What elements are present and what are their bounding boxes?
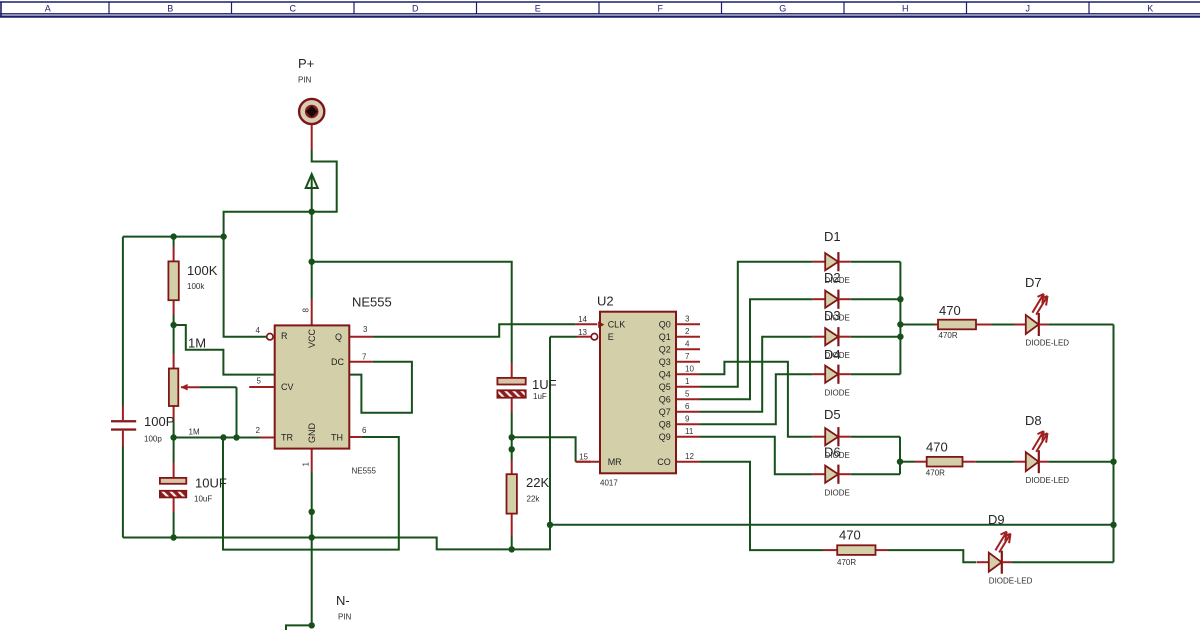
svg-text:P+: P+ [298, 56, 314, 71]
svg-text:DIODE: DIODE [825, 313, 850, 322]
svg-text:DIODE-LED: DIODE-LED [1026, 339, 1070, 348]
svg-text:C: C [290, 3, 297, 13]
svg-text:9: 9 [685, 415, 690, 424]
svg-text:1UF: 1UF [532, 377, 557, 392]
svg-text:VCC: VCC [307, 328, 317, 348]
svg-text:100P: 100P [144, 414, 174, 429]
svg-text:5: 5 [685, 390, 690, 399]
svg-text:1uF: 1uF [533, 392, 547, 401]
svg-text:CV: CV [281, 382, 294, 392]
svg-text:F: F [658, 3, 664, 13]
svg-text:Q6: Q6 [659, 394, 671, 404]
svg-text:470R: 470R [837, 558, 856, 567]
svg-text:3: 3 [363, 325, 368, 334]
svg-text:D: D [412, 3, 419, 13]
svg-text:6: 6 [362, 426, 367, 435]
svg-text:4017: 4017 [600, 479, 618, 488]
svg-text:NE555: NE555 [352, 295, 392, 310]
svg-text:E: E [608, 332, 614, 342]
svg-text:8: 8 [302, 308, 311, 313]
svg-text:Q4: Q4 [659, 369, 671, 379]
svg-text:Q2: Q2 [659, 344, 671, 354]
svg-text:6: 6 [685, 402, 690, 411]
svg-text:N-: N- [336, 593, 350, 608]
svg-text:470: 470 [926, 440, 948, 455]
svg-text:7: 7 [362, 353, 367, 362]
svg-text:1M: 1M [188, 336, 206, 351]
svg-text:2: 2 [256, 426, 261, 435]
svg-text:7: 7 [685, 352, 690, 361]
svg-text:H: H [902, 3, 909, 13]
svg-text:TR: TR [281, 433, 293, 443]
svg-text:D1: D1 [824, 229, 841, 244]
svg-text:470: 470 [939, 303, 961, 318]
svg-text:Q5: Q5 [659, 382, 671, 392]
svg-text:4: 4 [685, 340, 690, 349]
svg-text:DIODE: DIODE [825, 488, 850, 497]
svg-text:22k: 22k [527, 495, 541, 504]
svg-text:100p: 100p [144, 434, 162, 443]
svg-text:14: 14 [578, 315, 587, 324]
svg-text:DIODE: DIODE [825, 388, 850, 397]
svg-text:1: 1 [685, 377, 690, 386]
svg-text:J: J [1026, 3, 1031, 13]
svg-text:Q0: Q0 [659, 319, 671, 329]
svg-text:K: K [1147, 3, 1153, 13]
svg-text:G: G [779, 3, 786, 13]
svg-text:13: 13 [578, 328, 587, 337]
svg-text:470R: 470R [926, 469, 945, 478]
svg-text:U2: U2 [597, 294, 614, 309]
svg-text:PIN: PIN [338, 613, 352, 622]
svg-text:15: 15 [579, 453, 588, 462]
svg-text:D7: D7 [1025, 275, 1042, 290]
svg-text:5: 5 [257, 376, 262, 385]
svg-text:100K: 100K [187, 263, 218, 278]
svg-text:Q3: Q3 [659, 357, 671, 367]
svg-text:DIODE: DIODE [825, 451, 850, 460]
svg-text:CO: CO [657, 457, 671, 467]
svg-text:DC: DC [331, 357, 344, 367]
svg-text:D9: D9 [988, 512, 1005, 527]
svg-text:3: 3 [685, 315, 690, 324]
svg-text:DIODE: DIODE [825, 351, 850, 360]
svg-text:B: B [167, 3, 173, 13]
svg-text:PIN: PIN [298, 76, 312, 85]
svg-text:CLK: CLK [608, 319, 626, 329]
svg-text:GND: GND [307, 423, 317, 444]
svg-text:E: E [535, 3, 541, 13]
svg-text:A: A [45, 3, 51, 13]
svg-text:DIODE: DIODE [825, 276, 850, 285]
svg-text:12: 12 [685, 452, 694, 461]
svg-text:Q: Q [335, 332, 342, 342]
svg-text:10UF: 10UF [195, 476, 227, 491]
svg-text:D8: D8 [1025, 413, 1042, 428]
svg-text:NE555: NE555 [352, 467, 377, 476]
svg-text:11: 11 [685, 427, 694, 436]
svg-text:2: 2 [685, 327, 690, 336]
svg-text:470R: 470R [939, 331, 958, 340]
svg-text:100k: 100k [187, 282, 205, 291]
svg-text:TH: TH [331, 433, 343, 443]
svg-text:1: 1 [302, 462, 311, 467]
svg-text:Q9: Q9 [659, 432, 671, 442]
svg-text:D5: D5 [824, 407, 841, 422]
svg-text:Q7: Q7 [659, 407, 671, 417]
svg-text:DIODE-LED: DIODE-LED [989, 577, 1033, 586]
svg-text:10: 10 [685, 365, 694, 374]
svg-text:470: 470 [839, 528, 861, 543]
svg-text:R: R [281, 331, 288, 341]
svg-text:1M: 1M [189, 428, 200, 437]
svg-text:22K: 22K [526, 475, 549, 490]
svg-text:4: 4 [256, 326, 261, 335]
svg-text:DIODE-LED: DIODE-LED [1026, 476, 1070, 485]
svg-text:MR: MR [608, 457, 622, 467]
svg-text:10uF: 10uF [194, 495, 212, 504]
svg-text:Q8: Q8 [659, 419, 671, 429]
svg-text:Q1: Q1 [659, 332, 671, 342]
